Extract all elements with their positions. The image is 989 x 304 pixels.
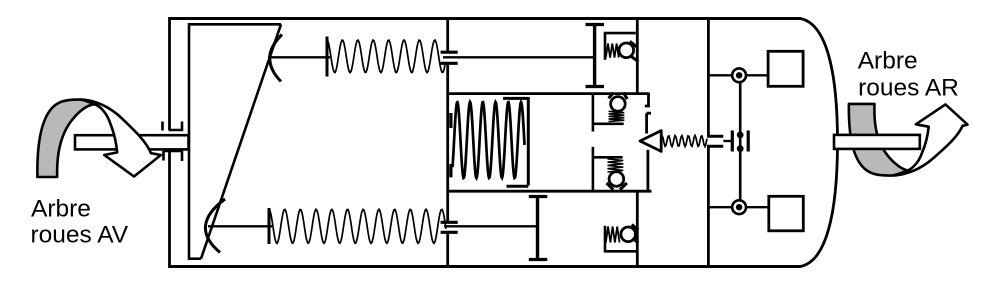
freewheel 1 spring bbox=[606, 44, 619, 58]
upper dog clutch bottom cap bbox=[586, 85, 605, 88]
lower spring anchor tick bbox=[268, 208, 271, 244]
lower dog clutch top cap bbox=[529, 195, 548, 198]
freewheel 2 spring bbox=[609, 111, 625, 121]
freewheel 3 bracket left wall bbox=[592, 147, 595, 192]
svg-text:roues AR: roues AR bbox=[858, 75, 959, 102]
upper slider block bbox=[768, 51, 803, 86]
housing top line bbox=[169, 17, 801, 20]
lower clutch plate (left pair) bottom bbox=[441, 231, 458, 234]
freewheel 2 right ramp bbox=[623, 93, 627, 99]
fork upper rod bbox=[647, 113, 651, 133]
wall step below front shaft bbox=[164, 151, 183, 161]
freewheel 2 left ramp bbox=[609, 93, 614, 99]
rear wheels shaft (arbre roues AR) bbox=[834, 135, 920, 149]
svg-text:Arbre: Arbre bbox=[858, 48, 918, 75]
freewheel race bar bottom bbox=[636, 191, 639, 268]
lower coil spring bbox=[269, 209, 446, 243]
lower branch link line bbox=[208, 225, 272, 227]
svg-text:Arbre: Arbre bbox=[31, 196, 91, 223]
lower pivot to slider link bbox=[746, 206, 770, 208]
freewheel 4 lower ramp bbox=[633, 238, 639, 243]
upper dog clutch bar bbox=[593, 25, 596, 87]
control arrowhead bbox=[640, 131, 661, 152]
freewheel 1 lower ramp bbox=[631, 57, 638, 62]
central box bottom line bbox=[447, 190, 652, 193]
freewheel 3 spring bbox=[608, 159, 624, 172]
lower branch line through clutch plates bbox=[444, 225, 537, 227]
freewheel 4 spring bbox=[606, 227, 620, 243]
fork lower rod bbox=[647, 150, 650, 191]
upper pivot link line bbox=[708, 74, 733, 76]
freewheel 4 upper ramp bbox=[632, 225, 639, 231]
freewheel 4 roller bbox=[621, 227, 636, 242]
cone clutch wedge hypotenuse bbox=[201, 24, 281, 258]
freewheel 2 bracket bottom bbox=[593, 123, 624, 126]
upper branch link line bbox=[268, 56, 330, 58]
svg-text:roues AV: roues AV bbox=[31, 222, 129, 249]
freewheel 3 roller bbox=[609, 172, 624, 187]
upper clutch plate (left pair) top bbox=[441, 51, 458, 54]
bearing tick above front shaft bbox=[161, 122, 164, 131]
upper coil spring bbox=[327, 40, 445, 73]
upper friction arc on cone bbox=[270, 35, 282, 82]
freewheel 2 bracket left wall bbox=[592, 93, 595, 132]
control spring bbox=[662, 136, 707, 147]
cone clutch wedge top edge bbox=[188, 23, 281, 26]
right divider wall lower bbox=[707, 146, 710, 268]
thrust bearing left plate bbox=[731, 131, 734, 152]
upper pivot to slider link bbox=[746, 74, 769, 76]
spring cup bracket right wall bbox=[527, 97, 530, 186]
central drum left wall middle bbox=[446, 65, 449, 222]
housing bottom line bbox=[169, 265, 801, 268]
lower dog clutch bottom cap bbox=[529, 258, 548, 261]
divider fork plate lower bbox=[707, 145, 723, 148]
spring cup bracket top bbox=[503, 97, 528, 100]
upper spring anchor tick bbox=[326, 37, 329, 77]
central box top line bbox=[447, 92, 649, 95]
freewheel 3 left ramp bbox=[607, 183, 614, 190]
spring cup bracket bottom bbox=[507, 185, 529, 188]
rotation arrow AV white front band with arrowhead bbox=[81, 100, 161, 177]
central main coil spring bbox=[453, 102, 525, 178]
lower dog clutch bar bbox=[536, 197, 539, 260]
thrust bearing upper ball bbox=[737, 132, 744, 139]
upper pivot bbox=[732, 68, 746, 82]
rotation arrow AV gray back band bbox=[37, 99, 96, 177]
upper dog clutch top cap bbox=[586, 23, 605, 26]
pivot connecting rod bbox=[739, 80, 742, 203]
wall step above front shaft bbox=[169, 122, 183, 131]
fork step from central top line bbox=[645, 93, 649, 107]
freewheel 1 bracket bbox=[605, 33, 636, 60]
upper clutch plate (left pair) bottom bbox=[441, 62, 458, 65]
housing right rounded cap bbox=[800, 19, 838, 267]
lower clutch plate (left pair) top bbox=[441, 221, 458, 224]
spring cup flange upper tick bbox=[449, 113, 452, 128]
lower pivot bbox=[732, 200, 746, 214]
spring cup flange lower tick bbox=[449, 164, 452, 177]
rotation arrow AR gray back band bbox=[849, 104, 911, 176]
freewheel 3 bracket top bbox=[593, 156, 623, 159]
freewheel 1 upper ramp bbox=[630, 41, 638, 47]
thrust bearing right plate bbox=[747, 131, 750, 152]
freewheel 2 roller bbox=[611, 97, 626, 112]
housing left wall lower segment bbox=[168, 151, 171, 268]
divider fork plate upper bbox=[707, 135, 723, 138]
cone clutch wedge left edge bbox=[188, 23, 191, 260]
lower slider block bbox=[769, 196, 804, 231]
link to thrust bearing bbox=[723, 140, 732, 142]
right divider wall upper bbox=[707, 17, 710, 136]
freewheel 4 bracket bbox=[605, 226, 638, 252]
upper branch line through clutch plates bbox=[443, 56, 594, 58]
lower pivot link line bbox=[708, 206, 733, 208]
thrust bearing lower ball bbox=[737, 145, 744, 152]
lower friction arc on cone bbox=[205, 199, 225, 253]
front wheels shaft (arbre roues AV) bbox=[75, 135, 189, 149]
freewheel 3 right ramp bbox=[620, 183, 627, 190]
central drum left wall lower bbox=[446, 234, 449, 269]
cone clutch wedge bottom edge bbox=[188, 257, 201, 260]
housing left wall upper segment bbox=[168, 17, 171, 130]
rotation arrow AR white front band with arrowhead bbox=[893, 104, 968, 175]
central drum left wall upper bbox=[446, 17, 449, 51]
bearing tick below front shaft bbox=[162, 151, 165, 161]
freewheel 1 roller bbox=[619, 43, 634, 58]
freewheel race bar top bbox=[636, 17, 639, 94]
